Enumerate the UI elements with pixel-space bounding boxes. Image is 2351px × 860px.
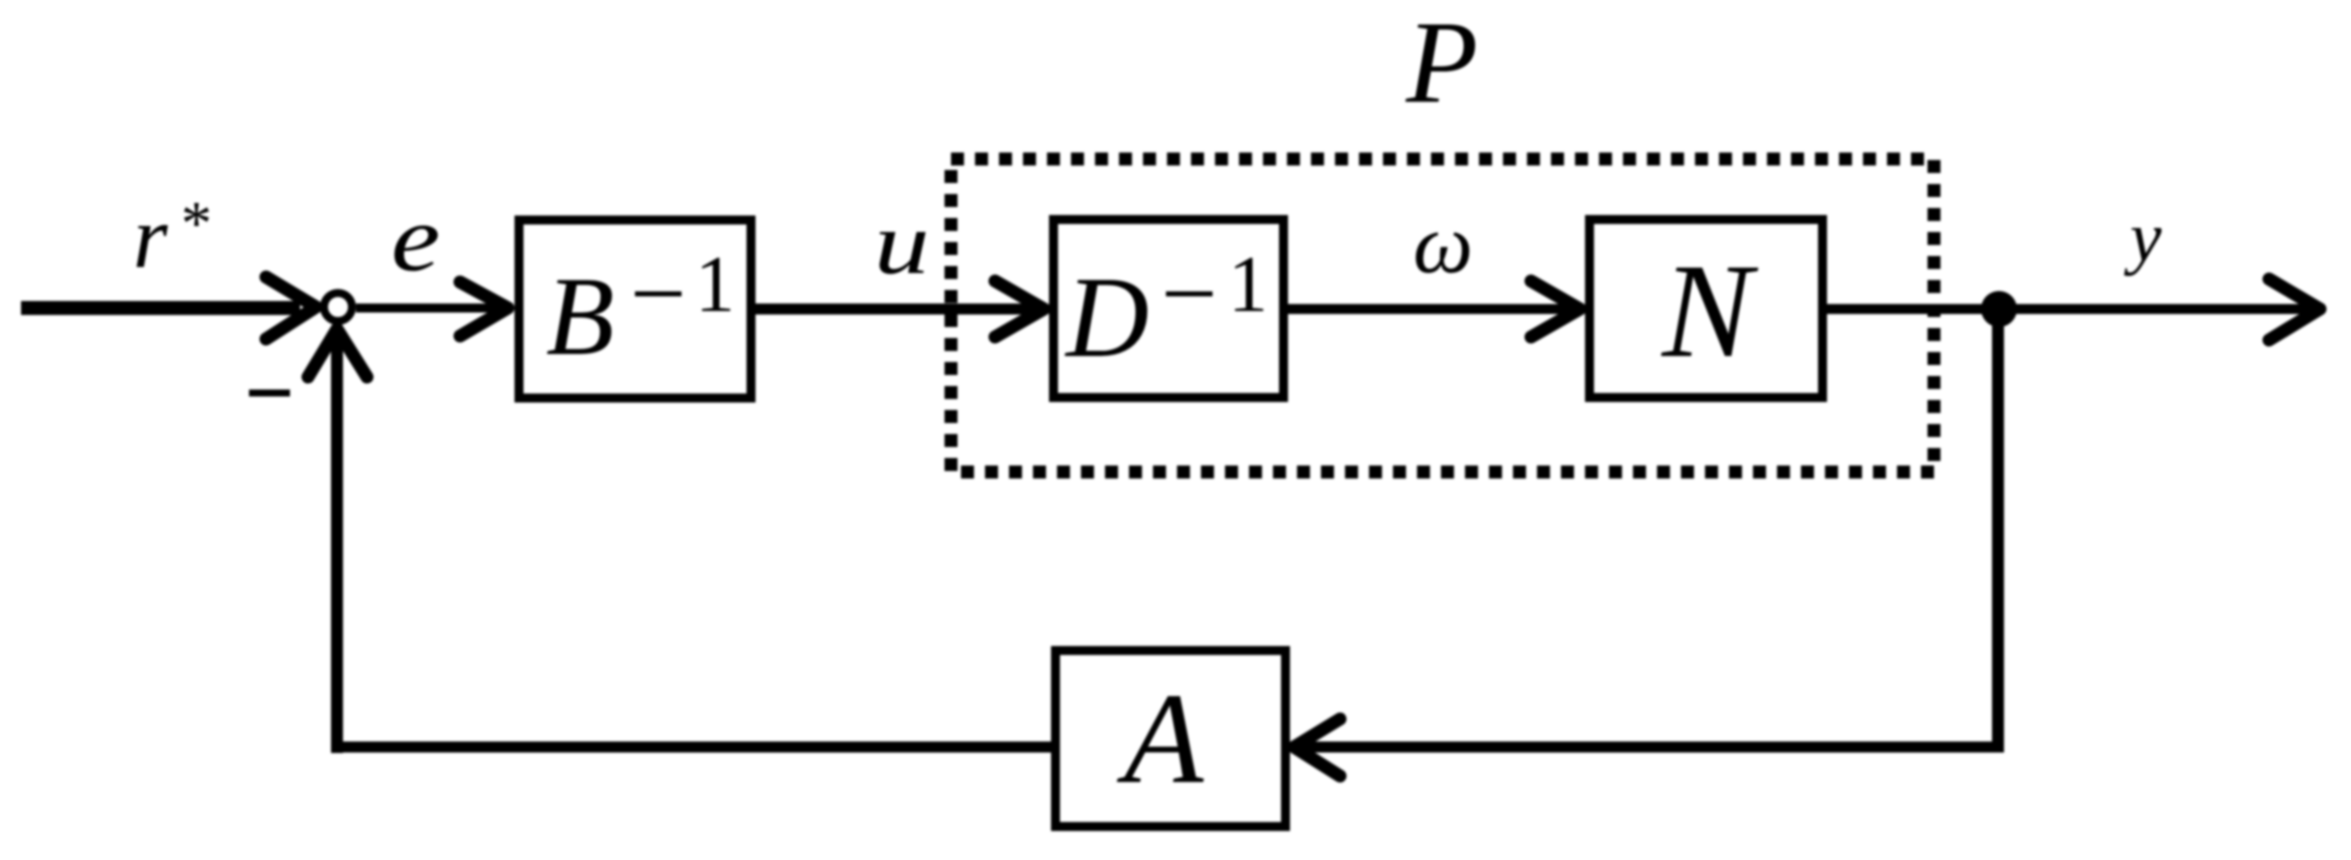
block D^-1 xyxy=(1054,220,1284,398)
svg-text:e: e xyxy=(391,187,440,291)
svg-text:1: 1 xyxy=(695,241,735,329)
svg-text:1: 1 xyxy=(1228,241,1268,329)
svg-text:*: * xyxy=(178,190,209,258)
block B^-1 xyxy=(519,220,751,398)
wire feedback bottom horizontal xyxy=(1298,742,2004,753)
svg-text:−: − xyxy=(630,238,686,349)
arrowhead into A xyxy=(1294,719,1340,776)
block N xyxy=(1590,220,1823,398)
svg-text:y: y xyxy=(2124,199,2162,277)
block A xyxy=(1056,651,1286,827)
svg-text:A: A xyxy=(1116,667,1204,811)
svg-text:ω: ω xyxy=(1413,197,1473,291)
wire u: B to D xyxy=(755,304,1040,315)
wire input r* line xyxy=(21,301,300,315)
summing junction circle xyxy=(324,293,352,321)
arrowhead into summing junction xyxy=(266,277,316,339)
wire N to output arrow xyxy=(1827,304,2310,314)
wire e: junction to B xyxy=(356,304,505,313)
wire feedback vertical up xyxy=(331,334,343,753)
svg-text:−: − xyxy=(1161,238,1217,349)
svg-text:N: N xyxy=(1661,237,1759,386)
arrowhead up into summing junction xyxy=(308,329,367,377)
arrowhead output y xyxy=(2269,279,2320,340)
svg-text:P: P xyxy=(1405,0,1478,128)
svg-text:D: D xyxy=(1064,254,1149,381)
wire feedback vertical down xyxy=(1992,309,2004,752)
wire A to left xyxy=(331,742,1051,753)
minus sign xyxy=(249,390,290,397)
svg-text:u: u xyxy=(874,193,930,292)
svg-text:r: r xyxy=(133,189,168,287)
arrowhead into B xyxy=(460,282,508,336)
dotted box P xyxy=(951,159,1934,472)
wire omega: D to N xyxy=(1288,304,1576,314)
svg-text:B: B xyxy=(546,255,614,379)
junction dot xyxy=(1981,291,2017,327)
arrowhead into N xyxy=(1531,281,1580,337)
arrowhead into D xyxy=(995,281,1044,337)
